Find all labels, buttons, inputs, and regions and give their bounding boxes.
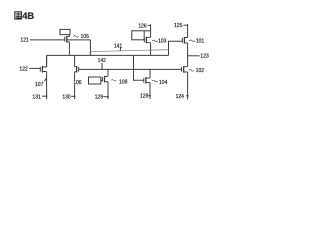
- svg-text:122: 122: [19, 67, 28, 73]
- svg-text:131: 131: [32, 94, 41, 100]
- svg-text:102: 102: [196, 68, 205, 74]
- svg-text:128: 128: [140, 94, 149, 100]
- svg-text:105: 105: [81, 34, 90, 40]
- svg-text:104: 104: [159, 80, 168, 86]
- svg-text:103: 103: [158, 38, 167, 44]
- svg-text:142: 142: [98, 58, 107, 64]
- svg-text:4B: 4B: [22, 10, 34, 21]
- svg-text:121: 121: [20, 38, 29, 44]
- svg-text:107: 107: [35, 82, 44, 88]
- svg-text:129: 129: [95, 95, 104, 101]
- svg-text:101: 101: [196, 39, 205, 45]
- svg-text:130: 130: [62, 95, 71, 101]
- svg-text:126: 126: [138, 23, 147, 29]
- svg-text:108: 108: [119, 79, 128, 85]
- svg-text:123: 123: [200, 53, 209, 59]
- svg-text:106: 106: [73, 80, 82, 86]
- svg-text:124: 124: [176, 94, 185, 100]
- svg-text:125: 125: [174, 23, 183, 29]
- svg-text:141: 141: [114, 44, 123, 50]
